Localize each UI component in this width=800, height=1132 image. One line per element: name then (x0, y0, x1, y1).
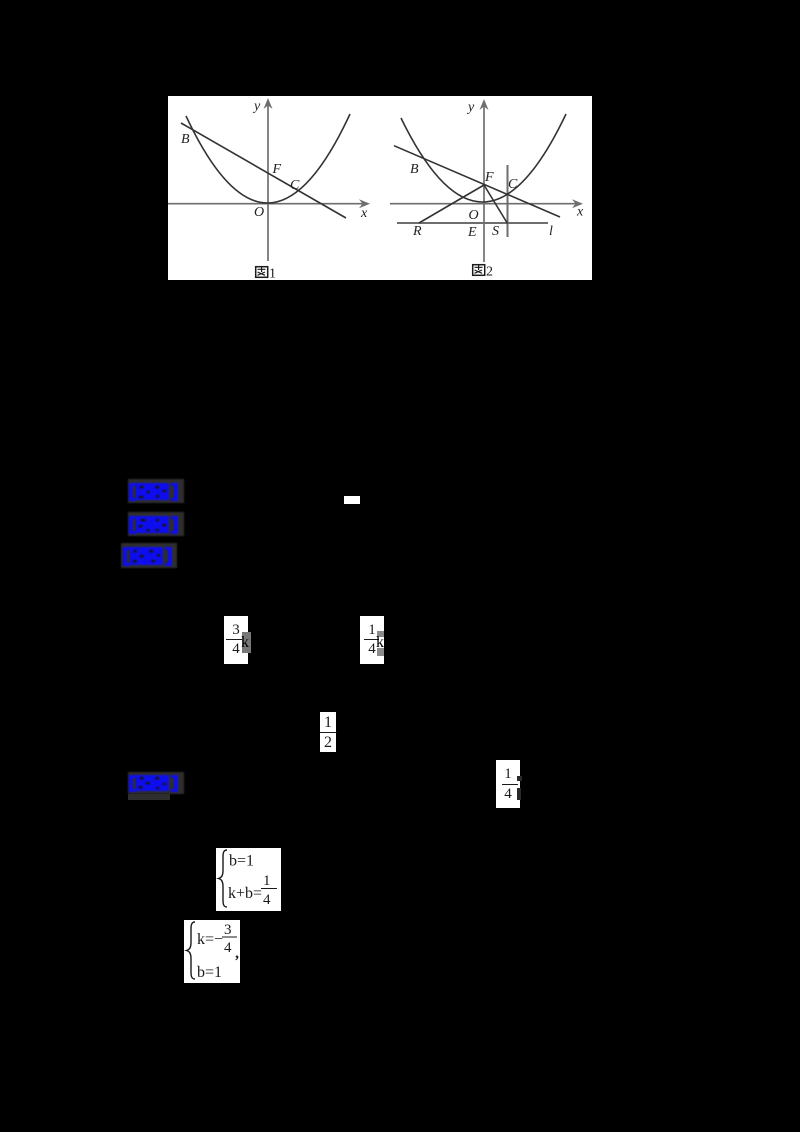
svg-text:k=−: k=− (197, 931, 223, 948)
svg-text:k+b=: k+b= (228, 885, 262, 902)
svg-text:y: y (252, 99, 261, 114)
svg-text:x: x (360, 206, 368, 221)
svg-text:F: F (272, 162, 282, 177)
svg-text:x: x (576, 205, 584, 220)
svg-text:E: E (467, 225, 477, 240)
svg-text:l: l (549, 224, 553, 239)
svg-text:R: R (412, 224, 422, 239)
svg-text:B: B (181, 132, 190, 147)
svg-text:y: y (466, 100, 475, 115)
svg-text:S: S (492, 224, 499, 239)
svg-text:O: O (469, 208, 479, 223)
svg-text:4: 4 (224, 940, 232, 956)
svg-text:F: F (484, 170, 494, 185)
svg-text:O: O (254, 205, 264, 220)
svg-text:4: 4 (263, 892, 271, 908)
svg-text:b=1: b=1 (197, 964, 222, 981)
svg-text:2: 2 (486, 265, 493, 280)
svg-text:1: 1 (269, 267, 276, 281)
svg-text:b=1: b=1 (229, 853, 254, 870)
svg-text:B: B (410, 162, 419, 177)
svg-text:,: , (235, 945, 239, 962)
svg-text:C: C (508, 177, 518, 192)
svg-text:3: 3 (224, 922, 232, 938)
svg-text:C: C (290, 178, 300, 193)
svg-text:1: 1 (263, 873, 271, 889)
